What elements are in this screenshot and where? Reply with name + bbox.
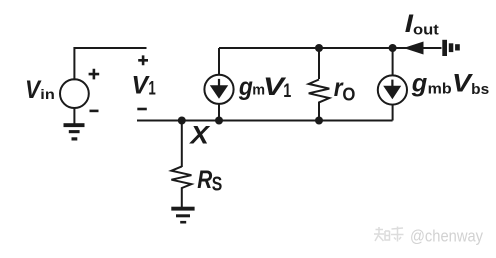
wire rO top lead	[318, 48, 320, 79]
junction dot at gmV1 bottom	[215, 117, 223, 125]
svg-text:X: X	[188, 121, 210, 149]
Vin minus polarity sign	[90, 110, 99, 113]
label Vin	[25, 76, 55, 104]
svg-text:bs: bs	[471, 81, 489, 98]
voltage source Vin (circle)	[60, 79, 89, 108]
gmV1 arrow (down)	[218, 79, 220, 86]
junction dot at RS branch	[178, 117, 186, 125]
svg-text:1: 1	[283, 81, 291, 102]
label V1	[132, 71, 157, 99]
wire Vin bottom stub to ground	[73, 107, 75, 124]
wire gmb source top	[392, 48, 394, 75]
junction dot at rO bottom	[315, 117, 323, 125]
label RS	[197, 166, 222, 196]
svg-text:g: g	[238, 73, 253, 101]
ground below RS	[171, 207, 194, 224]
label gmbVbs	[411, 69, 489, 98]
label gmV1	[238, 73, 292, 102]
Iout arrow (pointing left)	[404, 42, 424, 55]
watermark zhihu @chenway	[374, 227, 404, 242]
wire from Vin top up and right to V1 plus terminal	[74, 48, 146, 80]
label rO	[334, 74, 356, 105]
svg-text:R: R	[197, 166, 212, 194]
Vin plus polarity sign	[89, 69, 100, 80]
current source gmbVbs (circle)	[378, 75, 407, 104]
wire gmb source bottom to bottom rail	[392, 104, 394, 120]
svg-text:1: 1	[148, 79, 156, 100]
V1 plus sign	[138, 55, 148, 65]
wire gm source bottom	[218, 104, 220, 121]
V1 minus sign	[137, 108, 147, 111]
svg-text:@chenway: @chenway	[410, 227, 483, 246]
ground below Vin	[64, 123, 85, 140]
resistor RS (zigzag)	[171, 166, 191, 207]
wire RS branch down from node X	[181, 121, 183, 168]
current source gmV1 (circle)	[204, 75, 233, 104]
svg-text:O: O	[342, 84, 355, 105]
junction dot rO top	[315, 44, 323, 52]
svg-text:g: g	[411, 69, 428, 97]
top rail	[219, 47, 442, 49]
svg-text:mb: mb	[428, 80, 452, 97]
junction dot gmb top / Iout node	[389, 44, 397, 52]
resistor rO (zigzag)	[309, 80, 330, 121]
svg-text:S: S	[212, 174, 223, 196]
bottom rail (node X wire)	[137, 120, 393, 122]
wire gm source top	[218, 48, 220, 75]
sideways ground at Iout	[442, 40, 460, 56]
gmbVbs arrow (down)	[391, 80, 393, 87]
svg-text:out: out	[413, 21, 439, 38]
label Iout	[405, 10, 439, 38]
svg-text:in: in	[40, 86, 55, 102]
